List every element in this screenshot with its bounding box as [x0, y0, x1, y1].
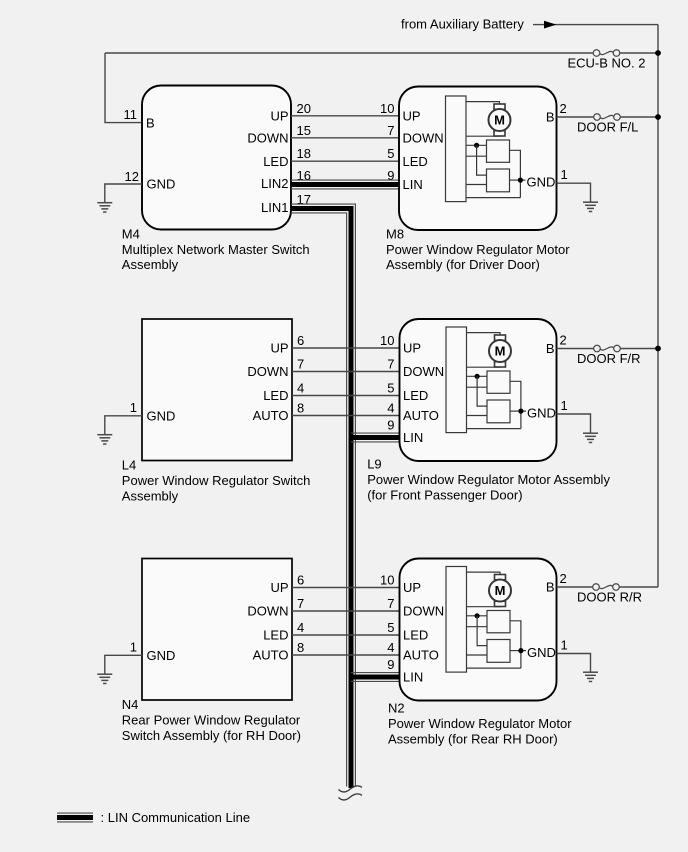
svg-text:LED: LED [263, 628, 288, 643]
svg-text:9: 9 [387, 168, 394, 183]
svg-text:L9: L9 [367, 457, 381, 472]
wire UP L4-L9 [292, 347, 400, 349]
svg-text:1: 1 [561, 398, 568, 413]
junction dot N2 [475, 613, 480, 618]
wire junction to relay 2 L9 [477, 376, 487, 406]
svg-text:8: 8 [297, 401, 304, 416]
wire DOWN L4-L9 [292, 371, 400, 373]
svg-text:UP: UP [270, 341, 288, 356]
svg-text:7: 7 [387, 596, 394, 611]
ground N2 [583, 672, 598, 681]
svg-text:2: 2 [560, 333, 567, 348]
svg-text:9: 9 [387, 657, 394, 672]
svg-text:AUTO: AUTO [403, 408, 439, 423]
node bus-fuse junction [655, 50, 661, 56]
svg-text:GND: GND [527, 645, 556, 660]
wire AUTO L4-L9 [292, 415, 400, 417]
relay 1 M8 [487, 140, 510, 162]
svg-text:LIN: LIN [403, 670, 423, 685]
svg-text:UP: UP [403, 109, 421, 124]
svg-text:AUTO: AUTO [253, 408, 289, 423]
wire LIN2 (LIN line) [291, 180, 400, 189]
svg-text:LIN: LIN [403, 177, 423, 192]
svg-text:DOWN: DOWN [403, 604, 444, 619]
motor box N2 [400, 559, 557, 701]
svg-text:Switch Assembly (for RH Door): Switch Assembly (for RH Door) [122, 728, 301, 743]
relay 2 M8 [487, 169, 510, 192]
wire relay 1 to gnd rail M8 [510, 150, 521, 197]
node bus DOOR F/R [655, 346, 661, 352]
wire LED L4-L9 [292, 395, 400, 397]
caption M8 [386, 226, 570, 272]
wire M4 GND [105, 184, 142, 202]
wire bar to relay 1 L9 [467, 375, 488, 377]
switch box N4 [142, 559, 292, 701]
svg-text:M8: M8 [386, 226, 404, 241]
svg-text:LED: LED [403, 388, 428, 403]
svg-text:M: M [495, 583, 506, 598]
svg-text:5: 5 [387, 620, 394, 635]
fuse ECU-B NO. 2 [593, 50, 620, 57]
svg-text:2: 2 [560, 101, 567, 116]
svg-text:Power Window Regulator Motor A: Power Window Regulator Motor Assembly [367, 472, 610, 487]
svg-text:AUTO: AUTO [253, 648, 289, 663]
svg-text:16: 16 [297, 168, 311, 183]
svg-text:LED: LED [263, 388, 288, 403]
svg-text:1: 1 [561, 167, 568, 182]
caption N2 [388, 701, 572, 747]
svg-text:M4: M4 [122, 226, 140, 241]
legend LIN line sample [57, 813, 93, 822]
svg-text:DOOR F/R: DOOR F/R [577, 351, 641, 366]
caption M4 [122, 226, 310, 272]
svg-text:Rear Power Window Regulator: Rear Power Window Regulator [122, 712, 301, 727]
svg-text:L4: L4 [122, 458, 136, 473]
wire B feed to M4 pin 11 [105, 53, 142, 123]
switch box M4 [142, 86, 291, 230]
wire bar to relay 1 lower N2 [467, 626, 488, 628]
svg-text:GND: GND [527, 175, 556, 190]
svg-text:DOOR R/R: DOOR R/R [577, 590, 642, 605]
motor M N2 [489, 575, 511, 607]
svg-text:Assembly: Assembly [122, 488, 179, 503]
svg-text:DOWN: DOWN [403, 131, 444, 146]
svg-text:6: 6 [297, 573, 304, 588]
svg-text:Assembly: Assembly [122, 257, 179, 272]
svg-text:Assembly (for Driver Door): Assembly (for Driver Door) [386, 257, 540, 272]
wire LIN1 trunk (LIN line) [291, 204, 355, 788]
ground L9 [583, 433, 598, 442]
svg-text:Power Window Regulator Motor: Power Window Regulator Motor [386, 242, 570, 257]
junction dot L9 [475, 374, 480, 379]
wire DOWN M4-M8 [291, 137, 399, 139]
svg-text:B: B [146, 115, 155, 130]
svg-text:DOWN: DOWN [403, 364, 444, 379]
relay 1 L9 [487, 371, 510, 393]
wire bar to motor bottom M8 [466, 135, 500, 137]
svg-text:UP: UP [403, 580, 421, 595]
wire relay 1 to gnd rail L9 [510, 381, 521, 428]
wire L4 GND [105, 416, 142, 434]
wire LIN branch to N2 (LIN line) [351, 673, 400, 682]
svg-text:20: 20 [297, 101, 311, 116]
wire bar to relay 2 L9 [467, 415, 488, 417]
svg-text:from Auxiliary Battery: from Auxiliary Battery [401, 16, 524, 31]
svg-text:2: 2 [560, 571, 567, 586]
fuse DOOR F/L [594, 114, 621, 121]
wire bar to relay 1 lower L9 [467, 386, 488, 388]
node bus DOOR F/L [655, 114, 661, 120]
wire bar to relay 1 N2 [467, 615, 488, 617]
wire bar to motor top L9 [467, 333, 501, 336]
ground M4 [97, 203, 112, 212]
arrowhead [544, 21, 557, 29]
wire bar bottom to gnd rail L9 [467, 428, 521, 430]
wire bar to motor top M8 [466, 102, 500, 105]
svg-text:AUTO: AUTO [403, 648, 439, 663]
wire M8 GND [557, 183, 591, 201]
svg-text:10: 10 [380, 101, 394, 116]
wire bar to motor bottom N2 [467, 605, 501, 607]
wire bar to motor top N2 [467, 572, 501, 575]
svg-text:Power Window Regulator Switch: Power Window Regulator Switch [122, 473, 311, 488]
svg-text:Multiplex Network Master Switc: Multiplex Network Master Switch [122, 242, 310, 257]
svg-text:1: 1 [561, 638, 568, 653]
svg-text:18: 18 [297, 146, 311, 161]
svg-text:4: 4 [297, 381, 304, 396]
wire bar to relay 1 lower M8 [466, 155, 487, 157]
svg-text:12: 12 [125, 169, 139, 184]
svg-text:4: 4 [297, 620, 304, 635]
svg-text:N4: N4 [122, 697, 139, 712]
svg-text:LED: LED [403, 154, 428, 169]
svg-text:ECU-B NO. 2: ECU-B NO. 2 [567, 56, 645, 71]
GND junction dot L9 [518, 409, 523, 414]
svg-text:17: 17 [297, 192, 311, 207]
ground L4 [97, 435, 112, 444]
GND junction dot N2 [518, 648, 523, 653]
svg-text:Assembly (for Rear RH Door): Assembly (for Rear RH Door) [388, 731, 558, 746]
connector bar M8 [446, 96, 467, 202]
caption L4 [122, 458, 311, 504]
wire L9 GND [557, 414, 591, 433]
svg-text:LIN2: LIN2 [261, 176, 288, 191]
svg-text:LIN1: LIN1 [261, 200, 288, 215]
svg-text:DOWN: DOWN [247, 604, 288, 619]
wire relay 2 to GND M8 [510, 179, 526, 181]
svg-text:M: M [495, 344, 506, 359]
svg-text:6: 6 [297, 333, 304, 348]
svg-text:15: 15 [297, 123, 311, 138]
wire auxiliary battery feed [533, 24, 658, 26]
svg-text:UP: UP [270, 109, 288, 124]
wire junction to relay 2 M8 [477, 145, 487, 175]
svg-text:LED: LED [403, 628, 428, 643]
svg-text:5: 5 [387, 146, 394, 161]
svg-text:1: 1 [130, 640, 137, 655]
wire N4 GND [105, 655, 142, 673]
svg-text:LED: LED [263, 154, 288, 169]
wire UP N4-N2 [292, 587, 400, 589]
svg-text:11: 11 [124, 107, 138, 122]
wire right bus [657, 25, 659, 587]
caption N4 [122, 697, 301, 743]
motor box M8 [399, 87, 557, 231]
ground N4 [97, 674, 112, 683]
fuse DOOR R/R [593, 584, 620, 591]
svg-text:: LIN Communication Line: : LIN Communication Line [101, 810, 251, 825]
wire bar to relay 1 M8 [466, 144, 487, 146]
svg-text:UP: UP [403, 341, 421, 356]
relay 2 L9 [487, 400, 510, 423]
svg-text:7: 7 [297, 357, 304, 372]
motor box L9 [400, 319, 557, 461]
svg-text:9: 9 [387, 417, 394, 432]
svg-text:7: 7 [387, 357, 394, 372]
svg-text:GND: GND [527, 406, 556, 421]
wire N2 B to bus [557, 586, 659, 588]
wire relay 2 to GND L9 [510, 410, 526, 412]
svg-text:M: M [494, 113, 505, 128]
wire LIN branch to L9 (LIN line) [351, 433, 400, 442]
motor M M8 [489, 104, 511, 136]
wire break squiggle [339, 786, 363, 800]
ground M8 [583, 202, 598, 211]
wire bar to motor bottom L9 [467, 366, 501, 368]
junction dot M8 [474, 143, 479, 148]
svg-text:B: B [546, 110, 555, 125]
wire relay 2 to GND N2 [510, 650, 526, 652]
wire fuse ECU-B row [105, 52, 658, 54]
wire AUTO N4-N2 [292, 654, 400, 656]
switch box L4 [142, 319, 292, 461]
svg-text:8: 8 [297, 640, 304, 655]
svg-text:7: 7 [297, 596, 304, 611]
fuse DOOR F/R [594, 345, 621, 352]
svg-text:LIN: LIN [403, 430, 423, 445]
wire DOWN N4-N2 [292, 610, 400, 612]
svg-text:GND: GND [147, 409, 176, 424]
wire L9 B to bus [557, 348, 659, 350]
wire M8 B to bus [557, 116, 659, 118]
GND junction dot M8 [518, 178, 523, 183]
svg-text:UP: UP [270, 580, 288, 595]
svg-text:(for Front Passenger Door): (for Front Passenger Door) [367, 487, 522, 502]
wire LED M4-M8 [291, 160, 399, 162]
svg-text:1: 1 [130, 400, 137, 415]
wire bar to relay 2 M8 [466, 184, 487, 186]
wire bar to relay 2 N2 [467, 654, 488, 656]
svg-text:7: 7 [387, 123, 394, 138]
relay 2 N2 [487, 640, 510, 663]
svg-text:DOWN: DOWN [247, 364, 288, 379]
wire junction to relay 2 N2 [477, 616, 487, 646]
wire LED N4-N2 [292, 634, 400, 636]
svg-text:10: 10 [380, 333, 394, 348]
wire bar bottom to gnd rail N2 [467, 667, 521, 669]
svg-text:4: 4 [387, 401, 394, 416]
svg-text:B: B [546, 341, 555, 356]
svg-text:Power Window Regulator Motor: Power Window Regulator Motor [388, 716, 572, 731]
connector bar L9 [446, 327, 467, 433]
wire UP M4-M8 [291, 115, 399, 117]
svg-text:GND: GND [147, 177, 176, 192]
svg-text:4: 4 [387, 640, 394, 655]
svg-text:B: B [546, 580, 555, 595]
svg-text:5: 5 [387, 381, 394, 396]
wire N2 GND [557, 654, 591, 672]
svg-text:10: 10 [380, 573, 394, 588]
svg-text:DOWN: DOWN [247, 131, 288, 146]
svg-text:N2: N2 [388, 701, 405, 716]
motor M L9 [489, 335, 511, 367]
svg-text:GND: GND [147, 648, 176, 663]
svg-text:DOOR F/L: DOOR F/L [577, 120, 638, 135]
relay 1 N2 [487, 611, 510, 633]
wire bar bottom to gnd rail M8 [466, 197, 520, 199]
wire relay 1 to gnd rail N2 [510, 621, 521, 668]
caption L9 [367, 457, 610, 503]
connector bar N2 [446, 567, 467, 673]
